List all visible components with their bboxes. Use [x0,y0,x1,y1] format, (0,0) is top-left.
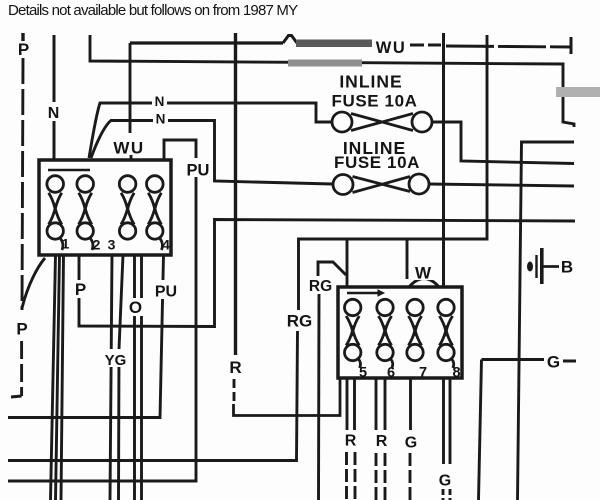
svg-text:WU: WU [376,39,407,57]
svg-text:P: P [16,320,27,339]
svg-text:1: 1 [62,236,70,252]
svg-text:R: R [229,358,241,377]
svg-text:7: 7 [419,365,427,381]
svg-text:3: 3 [108,237,116,253]
svg-text:R: R [345,433,357,450]
svg-text:4: 4 [162,237,170,253]
svg-text:B: B [561,258,573,277]
svg-text:P: P [75,280,86,299]
svg-text:RG: RG [309,278,332,295]
svg-text:G: G [405,435,417,452]
svg-text:PU: PU [187,162,210,180]
svg-text:FUSE 10A: FUSE 10A [331,92,417,111]
svg-text:N: N [48,105,60,122]
svg-text:INLINE: INLINE [339,72,402,92]
svg-text:WU: WU [113,139,144,158]
svg-text:FUSE 10A: FUSE 10A [334,153,420,172]
svg-text:PU: PU [155,284,177,301]
svg-text:2: 2 [93,237,101,253]
svg-text:RG: RG [287,312,313,331]
svg-text:O: O [129,298,142,317]
svg-text:8: 8 [452,365,460,381]
svg-text:P: P [18,40,29,59]
svg-text:W: W [415,264,432,283]
svg-text:5: 5 [359,365,367,381]
svg-text:N: N [156,112,166,127]
svg-text:R: R [376,433,388,450]
svg-text:N: N [155,94,165,109]
svg-text:G: G [547,353,560,372]
svg-text:G: G [439,473,451,490]
svg-text:YG: YG [105,352,127,369]
svg-text:6: 6 [387,365,395,381]
